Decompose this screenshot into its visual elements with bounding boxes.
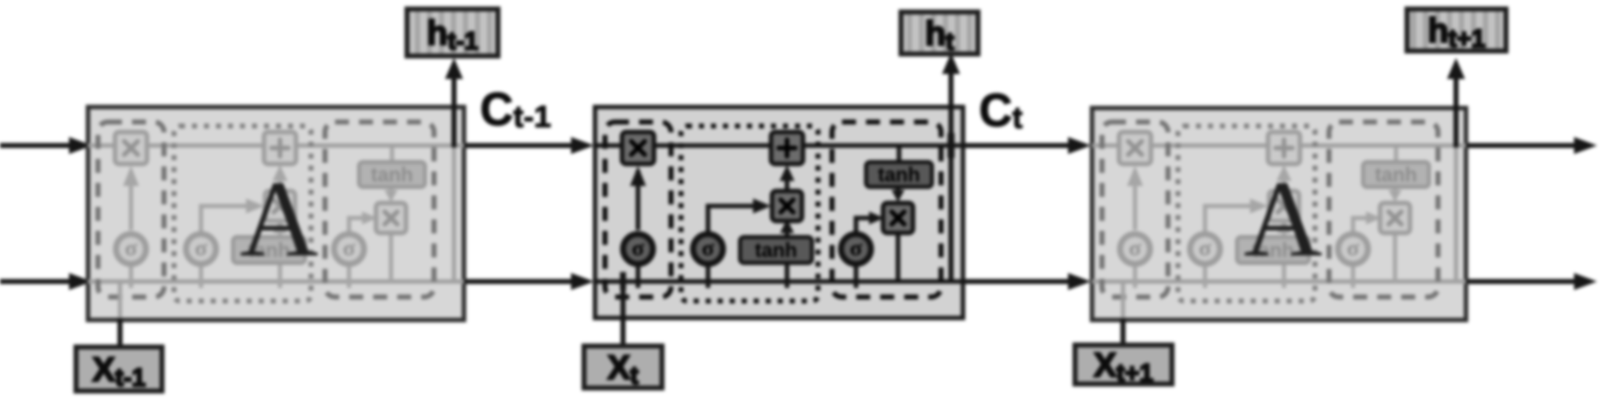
svg-text:σ: σ: [702, 236, 715, 261]
pointwise multiply gate box output-multiply t+1: [1380, 203, 1410, 233]
pointwise multiply gate box forget-multiply t: [622, 132, 654, 164]
svg-text:σ: σ: [1347, 236, 1360, 261]
wire sigma3 elbow to multiply3, t+1: [1353, 218, 1372, 233]
wire sigma3 elbow to multiply3, t: [856, 218, 875, 233]
wire tanh1 tap from h line, t-1: [278, 263, 282, 288]
wire C line tap down to tanh2, t-1: [390, 147, 394, 163]
wire tanh2 down to multiply3, t-1: [389, 187, 393, 198]
wire multiply2 up to add, t: [785, 170, 790, 192]
input-gate dotted group t-1: [174, 126, 311, 301]
wire h(t-1) output up to label: [452, 78, 457, 148]
tanh box tanh1 t-1: [233, 237, 305, 263]
wire sigma3 tap from h line, t+1: [1351, 264, 1355, 288]
wire tanh1 tap from h line, t+1: [1282, 263, 1286, 288]
sigmoid gate sigma3 t+1: [1338, 234, 1368, 264]
svg-text:σ: σ: [343, 236, 356, 261]
wire sigma2 elbow to multiply2, t-1: [201, 206, 254, 233]
svg-text:σ: σ: [1129, 236, 1142, 261]
sigmoid gate sigma2 t-1: [186, 234, 216, 264]
wire multiply3 down to h line, t: [896, 232, 901, 282]
pointwise multiply gate box forget-multiply t-1: [115, 132, 147, 164]
wire tanh1 tap from h line, t: [785, 263, 790, 288]
wire multiply2 up to add, t+1: [1282, 170, 1286, 192]
wire sigma2 tap from h line, t-1: [199, 264, 203, 288]
sigmoid gate sigma2 t+1: [1190, 234, 1220, 264]
wire tanh2 down to multiply3, t: [896, 187, 901, 198]
hidden-state line h through t+1: [1092, 279, 1466, 283]
node label box x(t-1): [76, 347, 162, 391]
cell-state line C, segment between t-1 and t: [464, 143, 588, 148]
tanh box tanh2 t-1: [359, 162, 425, 187]
pointwise add gate box add t+1: [1268, 132, 1300, 164]
node label box h(t): [901, 12, 978, 54]
wire x(t+1) input from label box: [1121, 318, 1126, 347]
wire h(t+1) output: faded inside cell below C line: [1454, 146, 1458, 282]
hidden-state line h, right output segment: [1466, 279, 1574, 284]
svg-text:Ct-1: Ct-1: [480, 83, 551, 135]
wire h(t-1) output: faded inside cell below C line: [452, 146, 456, 282]
wire x(t+1) input: faded inside cell: [1121, 282, 1125, 321]
pointwise add gate box add t: [771, 132, 803, 164]
forget-gate dashed group t: [605, 122, 671, 297]
sigmoid gate sigma1 t: [623, 234, 653, 264]
output-gate dashed group t+1: [1329, 122, 1438, 297]
wire multiply3 down to h line, t-1: [389, 232, 393, 282]
junction tick where h(t) output crosses C line: [948, 133, 955, 158]
tanh box tanh2 t: [866, 162, 932, 187]
cell-state line C through t: [595, 143, 963, 148]
sigmoid gate sigma1 t+1: [1120, 234, 1150, 264]
svg-text:tanh: tanh: [371, 165, 413, 187]
pointwise multiply gate box forget-multiply t+1: [1119, 132, 1151, 164]
LSTM cell body t+1: [1092, 108, 1466, 320]
svg-text:A: A: [1244, 159, 1323, 280]
tanh box tanh1 t+1: [1237, 237, 1309, 263]
wire h(t) output up to label: [949, 74, 954, 282]
wire multiply2 up to add, t-1: [278, 170, 282, 192]
wire h(t+1) output up to label: [1454, 78, 1459, 148]
sigmoid gate sigma2 t: [693, 234, 723, 264]
wire x(t-1) input from label box: [118, 318, 123, 349]
wire sigma2 tap from h line, t: [706, 264, 711, 288]
pointwise add gate box add t-1: [264, 132, 296, 164]
cell-state line C, right output segment: [1466, 143, 1574, 148]
svg-text:Ct: Ct: [979, 84, 1023, 136]
hidden-state line h, left segment: [0, 279, 86, 284]
wire sigma2 tap from h line, t+1: [1203, 264, 1207, 288]
wire tanh1 up to multiply2, t+1: [1282, 224, 1286, 238]
sigmoid gate sigma3 t: [841, 234, 871, 264]
output-gate dashed group t: [832, 122, 941, 297]
wire sigma3 tap from h line, t: [854, 264, 859, 288]
wire sigma1 to multiply, t+1: [1133, 170, 1137, 230]
pointwise multiply gate box input-multiply t: [772, 191, 802, 221]
cell-state line C, left segment: [0, 143, 86, 148]
input-gate dotted group t+1: [1178, 126, 1315, 301]
sigmoid gate sigma1 t-1: [116, 234, 146, 264]
output-gate dashed group t-1: [325, 122, 434, 297]
tanh box tanh2 t+1: [1363, 162, 1429, 187]
wire sigma1 tap from h line, t-1: [129, 264, 133, 288]
wire x(t) input from label box: [621, 274, 626, 349]
node label box h(t+1): [1407, 9, 1506, 51]
svg-text:σ: σ: [632, 236, 645, 261]
sigmoid gate sigma3 t-1: [334, 234, 364, 264]
wire x(t-1) input: faded inside cell: [118, 282, 122, 321]
wire C line tap down to tanh2, t: [897, 147, 902, 163]
pointwise multiply gate box input-multiply t-1: [265, 191, 295, 221]
svg-text:tanh: tanh: [1375, 165, 1417, 187]
wire tanh1 up to multiply2, t: [785, 224, 790, 238]
node label box h(t-1): [407, 9, 498, 56]
svg-text:σ: σ: [850, 236, 863, 261]
wire sigma2 elbow to multiply2, t+1: [1205, 206, 1258, 233]
wire tanh1 up to multiply2, t-1: [278, 224, 282, 238]
wire C line tap down to tanh2, t+1: [1394, 147, 1398, 163]
wire sigma3 tap from h line, t-1: [347, 264, 351, 288]
hidden-state line h through t-1: [88, 279, 464, 283]
forget-gate dashed group t-1: [98, 122, 164, 297]
wire sigma1 to multiply, t-1: [129, 170, 133, 230]
wire sigma3 elbow to multiply3, t-1: [349, 218, 368, 233]
wire sigma2 elbow to multiply2, t: [708, 206, 761, 233]
node label box x(t): [584, 346, 662, 388]
LSTM cell body t-1: [88, 107, 464, 320]
pointwise multiply gate box output-multiply t-1: [376, 203, 406, 233]
wire tanh2 down to multiply3, t+1: [1393, 187, 1397, 198]
pointwise multiply gate box input-multiply t+1: [1269, 191, 1299, 221]
wire sigma1 tap from h line, t+1: [1133, 264, 1137, 288]
LSTM cell body t: [595, 107, 963, 318]
tanh box tanh1 t: [740, 237, 812, 263]
svg-text:σ: σ: [195, 236, 208, 261]
cell-state line C, segment between t and t+1: [963, 143, 1085, 148]
svg-text:σ: σ: [125, 236, 138, 261]
wire sigma1 to multiply, t: [636, 170, 641, 230]
svg-text:σ: σ: [1199, 236, 1212, 261]
input-gate dotted group t: [681, 126, 818, 301]
wire multiply3 down to h line, t+1: [1393, 232, 1397, 282]
node label box x(t+1): [1075, 345, 1172, 384]
junction tick where x(t) input meets h line: [620, 272, 626, 290]
wire sigma1 tap from h line, t: [636, 264, 641, 288]
hidden-state line h, segment between t and t+1: [963, 279, 1085, 284]
pointwise multiply gate box output-multiply t: [883, 203, 913, 233]
forget-gate dashed group t+1: [1102, 122, 1168, 297]
cell-state line C through t+1: [1092, 143, 1466, 147]
hidden-state line h, segment between t-1 and t: [464, 279, 588, 284]
svg-text:tanh: tanh: [878, 165, 920, 187]
cell-state line C through t-1: [88, 143, 464, 147]
hidden-state line h through t: [595, 279, 963, 284]
svg-text:A: A: [240, 159, 319, 280]
svg-text:tanh: tanh: [755, 240, 797, 262]
